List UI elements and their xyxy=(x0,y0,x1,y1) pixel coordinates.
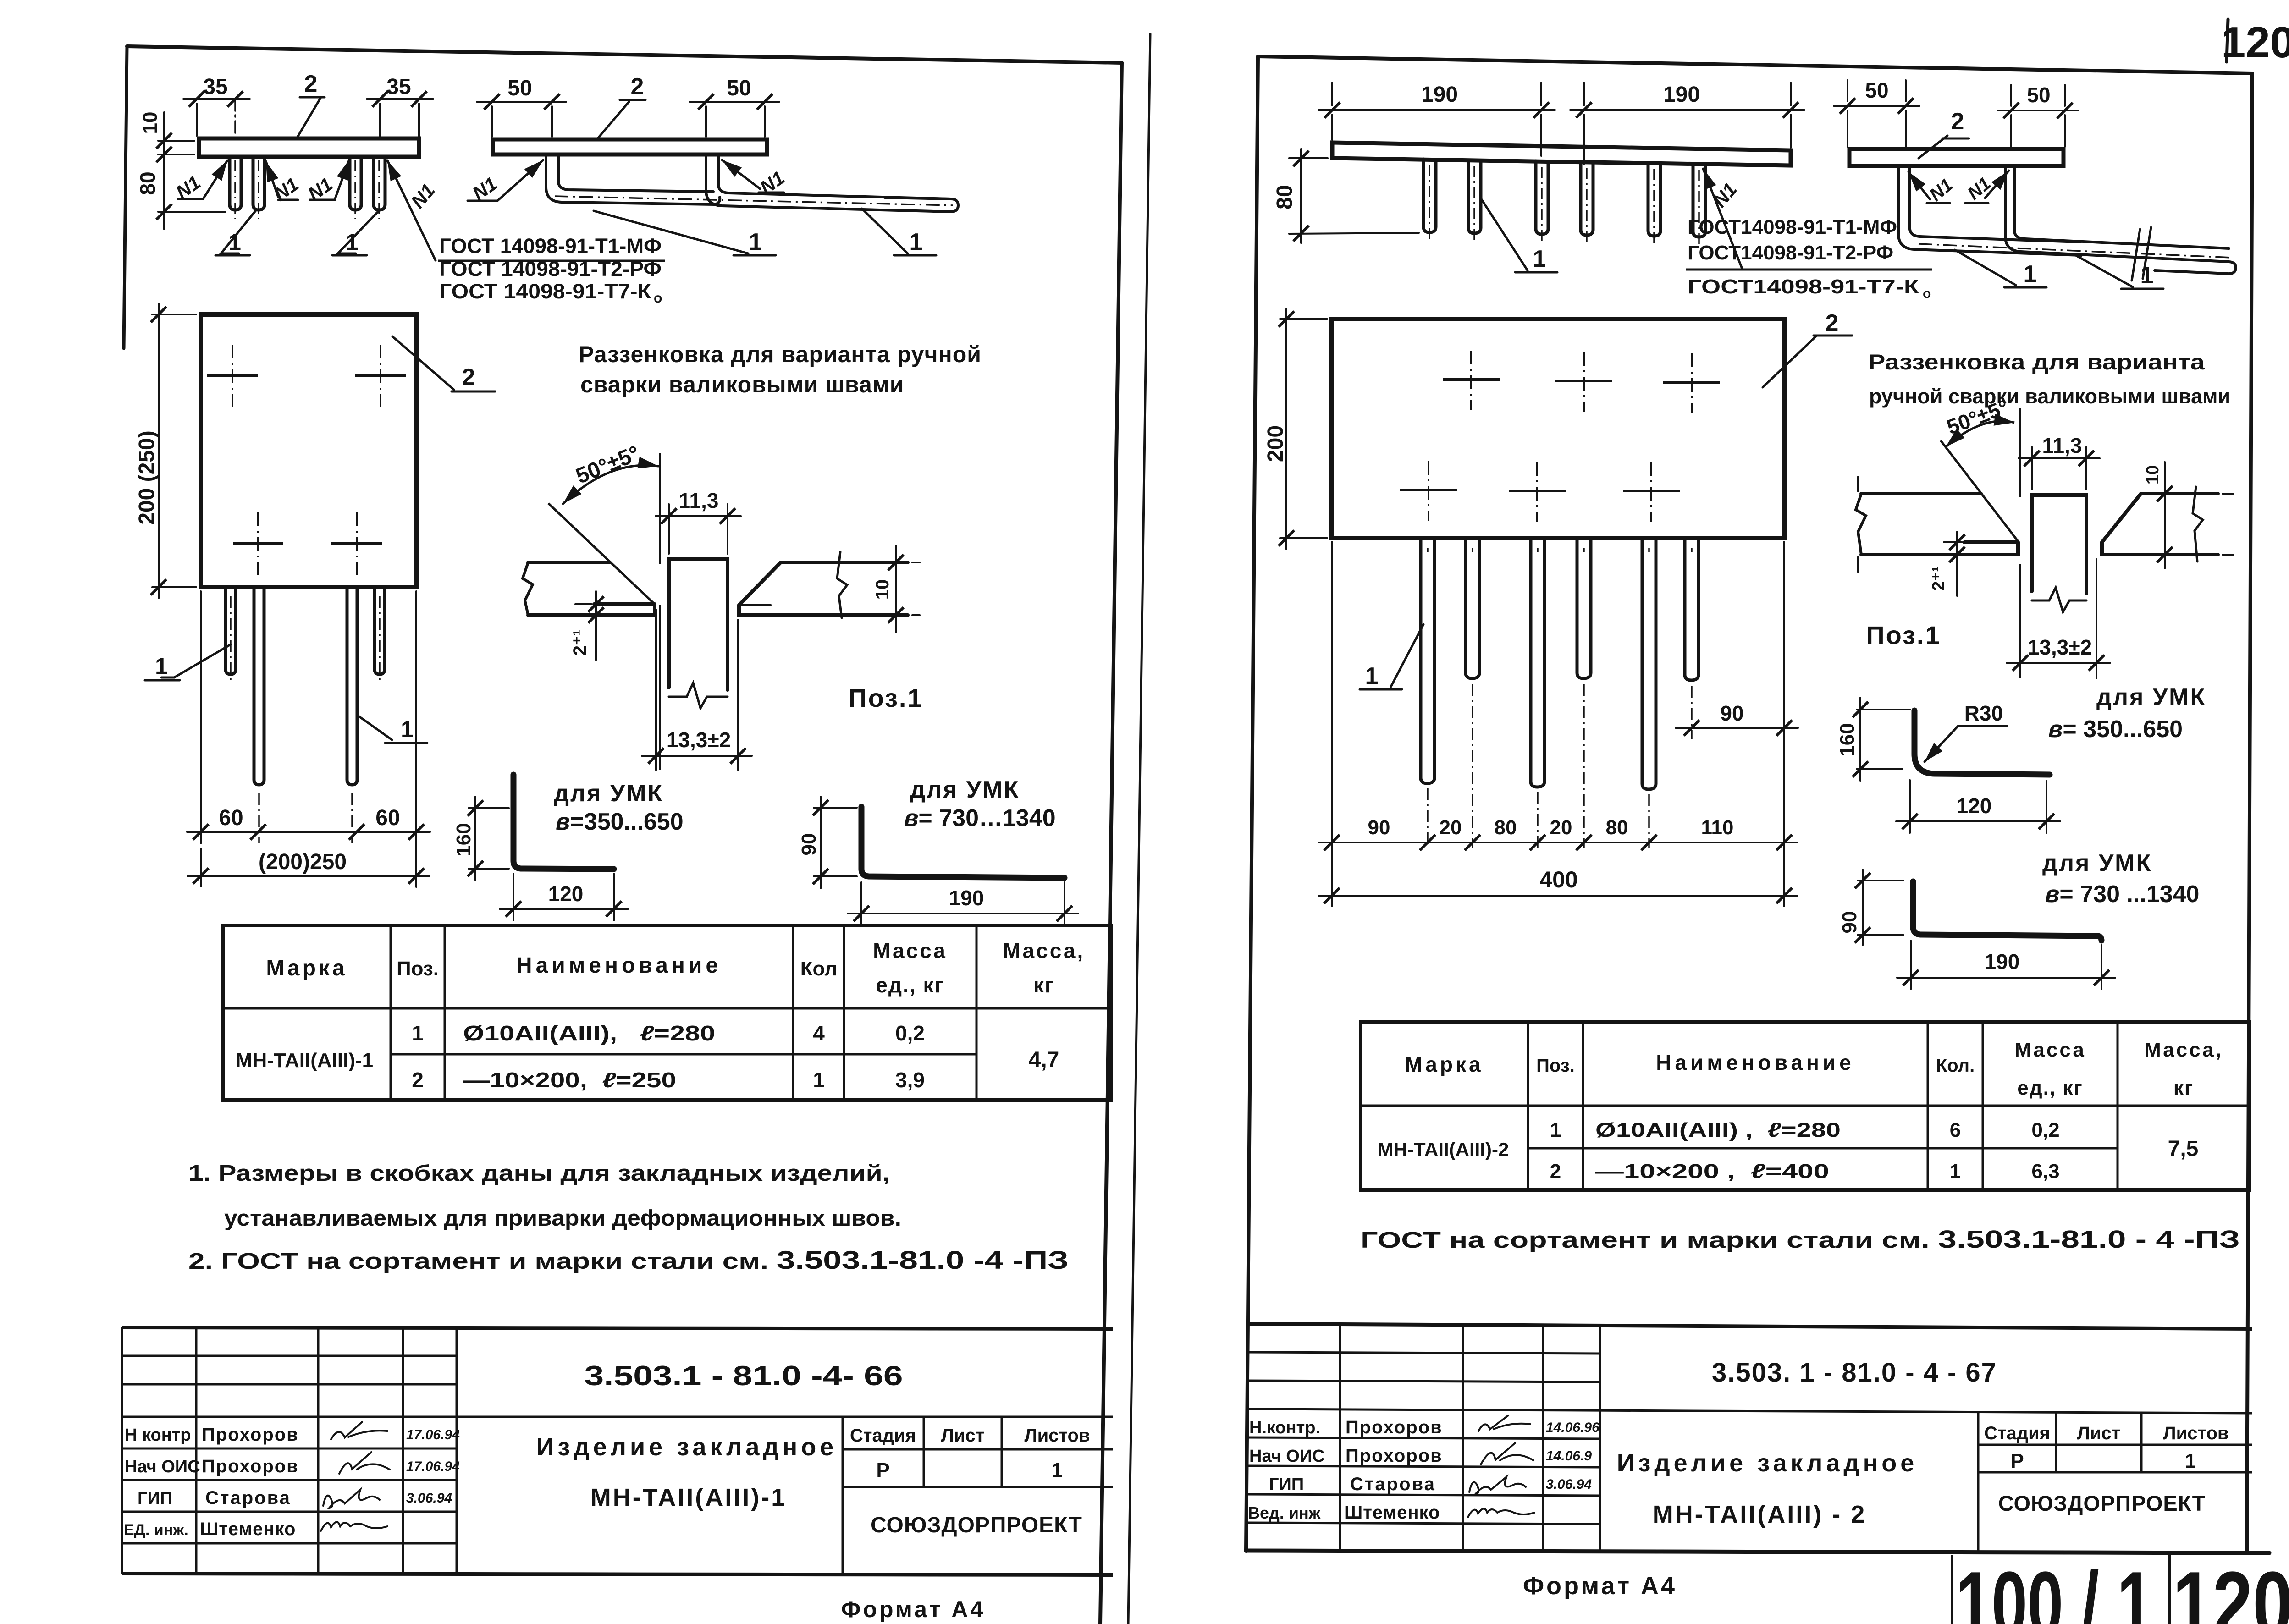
svg-text:Нач ОИС: Нач ОИС xyxy=(1249,1447,1325,1466)
svg-text:60: 60 xyxy=(219,806,243,830)
svg-text:в= 350...650: в= 350...650 xyxy=(2048,716,2183,743)
plate item 2 (side view) xyxy=(199,138,419,157)
bottom dim line 90/20/80/20/80/110 xyxy=(1318,842,1798,843)
plan studs (4 hairpins below plate) xyxy=(226,589,385,785)
svg-text:СОЮЗДОРПРОЕКТ: СОЮЗДОРПРОЕКТ xyxy=(1998,1491,2206,1515)
svg-text:Поз.: Поз. xyxy=(1536,1056,1575,1076)
dim 190 xyxy=(848,882,1078,925)
dim 190 (right) xyxy=(1570,83,1804,164)
svg-text:сварки валиковыми швами: сварки валиковыми швами xyxy=(580,372,905,397)
studs pos.1 (4 hairpins) xyxy=(230,158,385,210)
svg-text:кг: кг xyxy=(2173,1077,2194,1099)
svg-text:100 / 1: 100 / 1 xyxy=(1956,1553,2153,1624)
dim 200 vertical xyxy=(1280,309,1327,549)
leader 1 to bar 2 xyxy=(2074,254,2163,289)
svg-text:160: 160 xyxy=(452,823,475,856)
dim 2+1 root gap xyxy=(1944,532,1962,596)
svg-text:Старова: Старова xyxy=(1350,1474,1436,1494)
left plate section with bevel xyxy=(523,562,655,615)
stud1 centreline up to dim xyxy=(234,99,236,134)
cross marks row 2 xyxy=(1400,490,1680,491)
left page frame left border (partial, scan cut) xyxy=(124,46,127,348)
break zigzag inside right plate xyxy=(837,552,847,618)
svg-text:Листов: Листов xyxy=(1025,1426,1090,1446)
dim 11,3 xyxy=(656,504,741,554)
svg-text:80: 80 xyxy=(1273,185,1297,209)
dim 50 right xyxy=(1997,85,2079,147)
leader 2 (plan plate) xyxy=(392,336,495,391)
svg-text:90: 90 xyxy=(1838,911,1861,934)
break zigzag left end xyxy=(523,562,533,615)
leader 2 (plan plate) xyxy=(1763,336,1852,387)
dim 90 xyxy=(1858,870,1903,945)
leader 1 to stud 2 xyxy=(215,210,256,255)
dim 2+1 (root gap) xyxy=(575,591,596,660)
right page frame top border xyxy=(1258,56,2252,73)
svg-text:2: 2 xyxy=(1550,1160,1561,1183)
bent bar 2 (L-shape anchor) xyxy=(706,155,958,212)
svg-text:ГОСТ 14098-91-Т1-МФ: ГОСТ 14098-91-Т1-МФ xyxy=(439,234,662,258)
svg-text:1: 1 xyxy=(749,229,762,255)
svg-text:1: 1 xyxy=(228,229,241,255)
svg-text:в=350...650: в=350...650 xyxy=(556,809,684,835)
left page frame right border xyxy=(1100,63,1122,1624)
svg-text:90: 90 xyxy=(1720,701,1743,725)
dim 190 (left) xyxy=(1318,83,1555,156)
svg-text:для УМК: для УМК xyxy=(910,776,1020,803)
svg-text:для УМК: для УМК xyxy=(2042,850,2152,876)
svg-text:Наименование: Наименование xyxy=(1656,1051,1854,1074)
anchor cross marks row 1 xyxy=(207,374,406,377)
svg-text:1: 1 xyxy=(412,1021,424,1045)
dim 160 xyxy=(1857,698,1910,781)
svg-text:Поз.: Поз. xyxy=(397,958,439,980)
svg-text:МН-ТАII(АIII) - 2: МН-ТАII(АIII) - 2 xyxy=(1653,1501,1867,1528)
leader 1 to stud 3 (plan) xyxy=(357,715,427,743)
svg-text:1: 1 xyxy=(1550,1119,1561,1141)
svg-text:Н контр: Н контр xyxy=(125,1426,191,1445)
leader 1 to stud 1 (plan) xyxy=(145,644,231,680)
angle piece 160x120 xyxy=(513,775,614,869)
right page frame bottom border xyxy=(1246,1551,2269,1553)
svg-text:7,5: 7,5 xyxy=(2168,1137,2199,1161)
dim 13,3±2 xyxy=(2007,559,2110,678)
svg-text:6,3: 6,3 xyxy=(2031,1160,2059,1183)
svg-text:Лист: Лист xyxy=(941,1426,985,1446)
svg-text:2⁺¹: 2⁺¹ xyxy=(570,630,590,656)
dim 200(250) vertical xyxy=(152,303,196,598)
svg-text:0,2: 0,2 xyxy=(2031,1119,2059,1141)
svg-text:3.503.1 - 81.0 -4- 66: 3.503.1 - 81.0 -4- 66 xyxy=(585,1360,903,1391)
svg-text:ручной сварки валиковыми швами: ручной сварки валиковыми швами xyxy=(1869,385,2230,408)
cross marks row 1 xyxy=(1443,380,1720,382)
svg-text:1: 1 xyxy=(1533,246,1546,272)
svg-text:3,9: 3,9 xyxy=(895,1068,925,1092)
dim 35 (left) dim line xyxy=(183,98,250,100)
bar cross-section xyxy=(2032,495,2086,612)
plate item 2 (plan) xyxy=(201,314,416,587)
svg-text:Формат А4: Формат А4 xyxy=(1523,1572,1677,1600)
dim 50 left dim line xyxy=(477,101,566,103)
svg-text:o: o xyxy=(654,291,662,306)
svg-text:МН-ТАII(АIII)-1: МН-ТАII(АIII)-1 xyxy=(590,1484,787,1511)
svg-text:1. Размеры в скобках даны для: 1. Размеры в скобках даны для закладных … xyxy=(188,1161,890,1186)
svg-text:для УМК: для УМК xyxy=(554,780,663,807)
svg-text:1: 1 xyxy=(910,229,923,255)
svg-text:190: 190 xyxy=(949,886,984,910)
svg-text:Кол: Кол xyxy=(800,958,838,980)
dim 10 (plate thickness) xyxy=(896,545,920,633)
svg-text:90: 90 xyxy=(1368,816,1390,839)
svg-text:ГОСТ14098-91-Т7-К: ГОСТ14098-91-Т7-К xyxy=(1688,275,1919,298)
svg-text:2: 2 xyxy=(1951,108,1964,135)
left plate section with bevel xyxy=(1856,477,2018,572)
svg-text:17.06.94: 17.06.94 xyxy=(406,1427,460,1442)
right page frame right border xyxy=(2247,73,2252,1552)
svg-text:ГОСТ 14098-91-Т2-РФ: ГОСТ 14098-91-Т2-РФ xyxy=(439,257,662,281)
svg-text:Листов: Листов xyxy=(2163,1423,2229,1443)
svg-text:190: 190 xyxy=(1985,950,2020,974)
svg-text:3.503. 1 - 81.0 - 4 - 67: 3.503. 1 - 81.0 - 4 - 67 xyxy=(1712,1358,1997,1387)
leader 1 to bar 2 xyxy=(862,209,936,255)
left page frame top border xyxy=(127,46,1122,63)
svg-text:3.06.94: 3.06.94 xyxy=(1546,1477,1592,1492)
svg-text:Р: Р xyxy=(876,1459,889,1481)
svg-text:Штеменко: Штеменко xyxy=(200,1519,296,1539)
svg-text:СОЮЗДОРПРОЕКТ: СОЮЗДОРПРОЕКТ xyxy=(871,1513,1082,1537)
svg-text:1: 1 xyxy=(2140,262,2154,289)
svg-text:ГИП: ГИП xyxy=(138,1489,172,1508)
svg-text:2: 2 xyxy=(462,364,475,391)
svg-text:Н.контр.: Н.контр. xyxy=(1249,1418,1320,1437)
svg-text:60: 60 xyxy=(375,806,400,830)
svg-text:10: 10 xyxy=(2143,465,2162,484)
dim 160 xyxy=(469,797,509,880)
svg-text:50: 50 xyxy=(1865,78,1888,102)
bent bar 1 (L-shape anchor) xyxy=(546,155,720,204)
right plate section with bevel xyxy=(739,552,908,618)
svg-text:35: 35 xyxy=(386,75,411,99)
right plate section with bevel xyxy=(2102,487,2218,562)
svg-text:1: 1 xyxy=(155,653,168,679)
svg-text:2. ГОСТ на сортамент и марки с: 2. ГОСТ на сортамент и марки стали см. 3… xyxy=(188,1245,1069,1274)
bar break marks xyxy=(2132,227,2151,281)
svg-text:400: 400 xyxy=(1539,867,1577,892)
svg-text:160: 160 xyxy=(1836,723,1859,756)
svg-text:13,3±2: 13,3±2 xyxy=(2028,635,2092,659)
svg-text:120: 120 xyxy=(1957,794,1992,818)
leader 1 to stud 4 xyxy=(332,210,380,255)
leader 2 xyxy=(1919,136,1969,158)
dim 50 left xyxy=(1834,80,1919,147)
svg-text:Стадия: Стадия xyxy=(1984,1423,2050,1443)
svg-text:1: 1 xyxy=(1950,1160,1961,1183)
svg-text:Ø10АII(АIII), ℓ=280: Ø10АII(АIII), ℓ=280 xyxy=(463,1021,715,1045)
svg-text:ГИП: ГИП xyxy=(1269,1475,1304,1494)
svg-text:1: 1 xyxy=(401,716,414,742)
dim 35 (right) dim line xyxy=(367,98,433,100)
svg-text:Нач ОИС: Нач ОИС xyxy=(125,1457,200,1476)
svg-text:4,7: 4,7 xyxy=(1029,1048,1059,1072)
svg-text:(200)250: (200)250 xyxy=(259,850,347,874)
svg-text:1: 1 xyxy=(1052,1459,1063,1481)
extension lines for 35 dims xyxy=(196,104,198,136)
svg-text:Вед. инж: Вед. инж xyxy=(1248,1503,1321,1522)
svg-text:2⁺¹: 2⁺¹ xyxy=(1929,566,1948,591)
angle piece 160x120 with R30 corner xyxy=(1914,710,2050,775)
svg-text:14.06.9: 14.06.9 xyxy=(1546,1448,1592,1464)
dim (200)250 xyxy=(187,848,430,887)
bevel angle arc xyxy=(1946,421,2014,447)
leader 2 (plate) xyxy=(297,97,325,138)
svg-text:190: 190 xyxy=(1663,83,1700,107)
plate left edge extension xyxy=(1331,541,1333,907)
svg-text:50: 50 xyxy=(507,76,532,100)
tick before top-right page number xyxy=(2227,19,2228,62)
svg-text:11,3: 11,3 xyxy=(2042,434,2082,457)
svg-text:Стадия: Стадия xyxy=(850,1426,916,1446)
plate right edge extension xyxy=(1783,541,1785,907)
svg-text:Изделие закладное: Изделие закладное xyxy=(536,1433,838,1461)
svg-text:1: 1 xyxy=(1365,663,1379,689)
dim 120 xyxy=(500,874,628,920)
stud centrelines to lower dim line xyxy=(1428,548,1692,848)
right page frame left border xyxy=(1246,56,1258,1551)
svg-text:1: 1 xyxy=(2024,261,2037,287)
svg-text:2: 2 xyxy=(412,1068,424,1092)
svg-text:Изделие закладное: Изделие закладное xyxy=(1617,1449,1918,1477)
svg-text:Штеменко: Штеменко xyxy=(1344,1503,1440,1523)
svg-text:20: 20 xyxy=(1440,816,1462,839)
svg-text:200 (250): 200 (250) xyxy=(135,430,159,524)
vertical extension line (weld axis) xyxy=(659,453,661,770)
svg-text:ГОСТ14098-91-Т2-РФ: ГОСТ14098-91-Т2-РФ xyxy=(1688,242,1893,264)
dim 80 xyxy=(1289,149,1419,243)
dim 10/80 vertical dim line xyxy=(163,112,165,229)
svg-text:в= 730 ...1340: в= 730 ...1340 xyxy=(2045,881,2199,908)
archive numbers bottom right xyxy=(1952,1555,2170,1624)
handwritten signatures xyxy=(321,1422,390,1531)
svg-text:Прохоров: Прохоров xyxy=(202,1456,299,1476)
svg-text:ГОСТ на сортамент и марки стал: ГОСТ на сортамент и марки стали см. 3.50… xyxy=(1361,1226,2240,1253)
svg-text:2: 2 xyxy=(631,73,644,100)
dim 10 extension lines xyxy=(158,141,194,154)
plate item 2 xyxy=(1849,149,2063,166)
svg-text:1: 1 xyxy=(346,229,359,255)
svg-text:80: 80 xyxy=(1606,816,1628,839)
svg-text:Марка: Марка xyxy=(266,956,347,980)
svg-text:ЕД. инж.: ЕД. инж. xyxy=(124,1521,188,1539)
bar cross-section pos.1 xyxy=(669,559,728,708)
svg-text:устанавливаемых для приварки д: устанавливаемых для приварки деформацион… xyxy=(224,1206,901,1231)
svg-text:Масса: Масса xyxy=(873,939,947,963)
dim 13,3±2 xyxy=(642,610,752,770)
svg-text:Кол.: Кол. xyxy=(1936,1056,1975,1076)
dim 80 extension from stud bottom xyxy=(158,211,226,213)
svg-text:Поз.1: Поз.1 xyxy=(1866,621,1941,650)
svg-text:ГОСТ 14098-91-Т7-К: ГОСТ 14098-91-Т7-К xyxy=(439,280,651,303)
svg-text:МН-ТАII(АIII)-1: МН-ТАII(АIII)-1 xyxy=(236,1049,373,1072)
bars centreline xyxy=(555,196,953,205)
svg-text:35: 35 xyxy=(203,75,227,99)
svg-text:80: 80 xyxy=(1495,816,1517,839)
bent bar 2 xyxy=(2005,167,2236,274)
dim 10 plate thickness xyxy=(2165,462,2234,568)
anchor cross marks row 2 xyxy=(233,542,382,545)
handwritten signatures xyxy=(1468,1415,1534,1517)
leader 1 to bar 1 xyxy=(594,211,776,255)
dim 90 xyxy=(814,797,857,888)
svg-text:3.06.94: 3.06.94 xyxy=(406,1491,452,1506)
svg-text:10: 10 xyxy=(872,579,893,600)
plan studs (6 hairpins) xyxy=(1421,540,1699,789)
svg-text:200: 200 xyxy=(1263,425,1288,462)
extension lines 50 dims xyxy=(492,106,765,137)
vertical extension line xyxy=(2019,408,2021,678)
svg-text:110: 110 xyxy=(1701,816,1734,839)
svg-text:o: o xyxy=(1923,286,1931,301)
svg-text:ед., кг: ед., кг xyxy=(876,973,944,997)
dim 90 (upper right) xyxy=(1676,727,1798,729)
dim 60 + 60 bottom xyxy=(187,591,430,887)
svg-text:Марка: Марка xyxy=(1405,1052,1483,1076)
bent bar 1 xyxy=(1898,167,2081,255)
svg-text:190: 190 xyxy=(1421,83,1458,107)
svg-text:50: 50 xyxy=(2027,83,2050,107)
svg-text:—10×200 , ℓ=400: —10×200 , ℓ=400 xyxy=(1595,1160,1829,1183)
bevel angle arc xyxy=(563,465,658,504)
bevel slant construction line xyxy=(1941,440,2018,541)
svg-text:120: 120 xyxy=(2173,1553,2289,1624)
svg-text:14.06.96: 14.06.96 xyxy=(1546,1420,1600,1435)
svg-text:2: 2 xyxy=(1826,310,1839,336)
plate item 2 (side view B) xyxy=(493,139,767,154)
angle piece 90x190 xyxy=(861,807,1065,878)
bars centreline xyxy=(1919,244,2232,258)
svg-text:Масса: Масса xyxy=(2014,1039,2086,1061)
middle divider line between pages xyxy=(1128,34,1150,1624)
dim 190 xyxy=(1897,941,2115,989)
plate item 2 (plan) xyxy=(1332,319,1784,538)
svg-text:Раззенковка для варианта: Раззенковка для варианта xyxy=(1868,350,2205,374)
svg-text:20: 20 xyxy=(1550,816,1572,839)
svg-text:Ø10АII(АIII) , ℓ=280: Ø10АII(АIII) , ℓ=280 xyxy=(1595,1119,1841,1141)
dim 400 xyxy=(1318,895,1798,897)
svg-text:Формат А4: Формат А4 xyxy=(841,1596,986,1622)
dim 50 right dim line xyxy=(690,101,779,103)
dim 120 xyxy=(1896,780,2060,833)
svg-text:1: 1 xyxy=(2185,1450,2196,1472)
svg-text:Лист: Лист xyxy=(2077,1423,2121,1443)
svg-text:Масса,: Масса, xyxy=(2144,1039,2223,1061)
leader 1 to stud 1 xyxy=(1360,624,1423,689)
svg-text:—10×200, ℓ=250: —10×200, ℓ=250 xyxy=(463,1068,676,1092)
svg-text:R30: R30 xyxy=(1964,701,2003,725)
svg-text:Прохоров: Прохоров xyxy=(1346,1417,1443,1437)
svg-text:4: 4 xyxy=(813,1021,825,1045)
svg-text:50: 50 xyxy=(727,76,751,100)
leader 1 to bar 1 xyxy=(1955,250,2046,287)
svg-text:90: 90 xyxy=(798,833,820,856)
svg-text:1: 1 xyxy=(813,1068,825,1092)
plate item 2 (side view) xyxy=(1332,143,1791,165)
svg-text:Прохоров: Прохоров xyxy=(202,1425,299,1445)
svg-text:11,3: 11,3 xyxy=(679,489,719,512)
svg-text:Поз.1: Поз.1 xyxy=(848,683,923,712)
svg-text:80: 80 xyxy=(136,171,160,195)
svg-text:120: 120 xyxy=(2221,18,2289,67)
svg-text:6: 6 xyxy=(1950,1119,1961,1141)
angle piece 90x190 xyxy=(1913,881,2101,941)
leader 2 (plate B) xyxy=(597,100,645,139)
svg-text:ГОСТ14098-91-Т1-МФ: ГОСТ14098-91-Т1-МФ xyxy=(1688,216,1897,238)
svg-text:Масса,: Масса, xyxy=(1003,939,1085,963)
studs (6 hairpins) xyxy=(1423,159,1705,237)
svg-text:120: 120 xyxy=(548,882,584,906)
svg-text:для УМК: для УМК xyxy=(2096,684,2206,710)
svg-text:Старова: Старова xyxy=(205,1488,291,1508)
leader 1 to stud 2 xyxy=(1481,199,1557,272)
svg-text:ед., кг: ед., кг xyxy=(2017,1077,2083,1099)
svg-text:17.06.94: 17.06.94 xyxy=(406,1459,460,1474)
bevel slant construction line xyxy=(548,503,655,604)
svg-text:в= 730…1340: в= 730…1340 xyxy=(904,805,1056,831)
svg-text:Наименование: Наименование xyxy=(516,953,722,978)
svg-text:Раззенковка для варианта ручно: Раззенковка для варианта ручной xyxy=(579,341,982,367)
svg-text:МН-ТАII(АIII)-2: МН-ТАII(АIII)-2 xyxy=(1378,1139,1509,1160)
svg-text:10: 10 xyxy=(139,112,161,134)
svg-text:13,3±2: 13,3±2 xyxy=(667,728,731,752)
dim 11,3 xyxy=(2019,447,2100,490)
svg-text:Р: Р xyxy=(2010,1450,2024,1472)
svg-text:Прохоров: Прохоров xyxy=(1346,1446,1443,1466)
svg-text:0,2: 0,2 xyxy=(895,1021,925,1045)
svg-text:кг: кг xyxy=(1033,973,1054,997)
svg-text:2: 2 xyxy=(304,71,318,97)
